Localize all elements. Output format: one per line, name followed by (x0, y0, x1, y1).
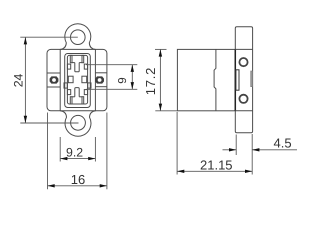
inner rounded rect (65, 54, 91, 108)
svg-text:21.15: 21.15 (200, 157, 233, 172)
dim 21.15 right ext (251, 134, 253, 175)
left wing screw boss octagon (50, 76, 59, 83)
dim 9.2 right ext (94, 137, 96, 162)
dim 4.5 line left part (223, 149, 237, 151)
tab left notch (236, 70, 239, 90)
top ear hole (71, 30, 86, 45)
middle right outer tab (88, 83, 91, 88)
lower right notch (84, 90, 87, 95)
bottom slot stem (75, 88, 79, 97)
front view outer body (47, 49, 107, 110)
side view body (177, 49, 235, 110)
right wing cell top edge (95, 72, 107, 74)
svg-text:9: 9 (117, 77, 129, 83)
arrow 17.2 up (159, 49, 162, 56)
middle left outer tab (64, 83, 67, 88)
upper left notch (67, 64, 70, 69)
front view right section line (94, 49, 96, 110)
dim 9 top leader (86, 64, 137, 66)
dim 17.2 bottom leader (155, 110, 177, 112)
dim 17.2 top leader (155, 48, 167, 50)
arrow 9 down (131, 82, 134, 89)
side rail tab outline (235, 27, 252, 133)
bottom slot right pillar (82, 97, 84, 104)
left wing cell bottom edge (47, 86, 60, 88)
tab lower hole (239, 95, 247, 103)
bottom ear outline (60, 111, 95, 137)
bottom slot right shoulder (79, 96, 82, 98)
tab right bump (251, 71, 253, 87)
middle left square (68, 76, 73, 83)
arrow 21.15 right (245, 170, 252, 173)
svg-text:16: 16 (71, 172, 85, 187)
dim 17.2 line (159, 49, 161, 110)
front view left section line (59, 49, 61, 110)
dim 9 bottom leader (86, 88, 137, 90)
left wing screw hole (52, 78, 56, 82)
right wing cell bottom edge (95, 86, 107, 88)
arrow 9.2 right (88, 157, 95, 160)
tab top crossing line (235, 48, 252, 50)
dim 9 line (131, 65, 133, 90)
dim 24 bottom leader (20, 122, 78, 124)
dim 9.2 line (60, 158, 95, 160)
top ear outline (60, 24, 95, 50)
dim 16 right ext (106, 113, 108, 190)
arrow 4.5 left-pointing (252, 148, 259, 151)
bottom slot left shoulder (72, 96, 75, 98)
top slot right pillar (82, 55, 84, 62)
dim 4.5 line right part (252, 149, 297, 151)
dim 24 top leader (20, 36, 78, 38)
arrow 16 right (100, 184, 107, 187)
top slot right shoulder (79, 62, 82, 64)
arrow 9.2 left (60, 157, 67, 160)
top slot left shoulder (72, 62, 75, 64)
dim 24 line (24, 37, 26, 123)
svg-text:17.2: 17.2 (143, 67, 158, 96)
right wing screw hole (98, 78, 102, 82)
svg-text:9.2: 9.2 (66, 145, 83, 159)
svg-text:24: 24 (11, 73, 25, 87)
middle right square (82, 76, 87, 83)
side view internal jogged line (214, 49, 216, 110)
svg-text:4.5: 4.5 (274, 135, 292, 150)
left wing cell top edge (47, 72, 60, 74)
dim 21.15 left ext (176, 112, 178, 175)
arrow 17.2 down (159, 104, 162, 111)
body right / tab left doubled edge (234, 49, 236, 110)
contact cavity outline (67, 55, 87, 104)
dim 4.5 left ext (235, 135, 237, 156)
dim 21.15 line (177, 170, 252, 172)
arrow 24 up (24, 37, 27, 44)
arrow 24 down (24, 116, 27, 123)
lower left notch (67, 90, 70, 95)
dim 9.2 left ext (59, 137, 61, 162)
arrow 21.15 left (177, 170, 184, 173)
right wing screw boss octagon (95, 76, 104, 83)
dim 16 line (48, 185, 107, 187)
dim 16 left ext (47, 113, 49, 190)
tab upper hole (239, 58, 247, 66)
top slot left pillar (70, 55, 72, 62)
arrow 9 up (131, 65, 134, 72)
bottom slot left pillar (70, 97, 72, 104)
top slot stem (75, 63, 79, 72)
tab bottom crossing line (235, 110, 252, 112)
bottom ear hole (71, 115, 86, 130)
upper right notch (84, 64, 87, 69)
arrow 4.5 right-pointing (229, 148, 236, 151)
arrow 16 left (48, 184, 55, 187)
